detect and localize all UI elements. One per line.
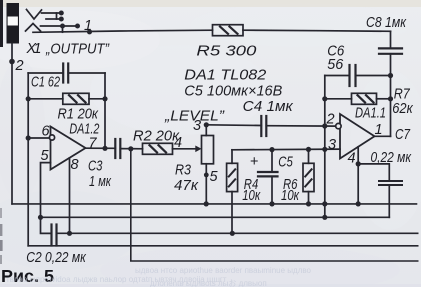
wire output pin1	[375, 135, 391, 137]
svg-text:„OUTPUT”: „OUTPUT”	[45, 42, 110, 58]
wire	[57, 13, 61, 19]
node	[388, 73, 393, 78]
wire rail D	[28, 245, 418, 247]
svg-text:62к: 62к	[392, 101, 414, 117]
wire top rail left part	[33, 30, 213, 32]
wire rail E	[131, 149, 418, 261]
capacitor C4	[206, 116, 266, 136]
svg-text:7: 7	[89, 136, 98, 152]
node	[204, 173, 209, 178]
capacitor C8	[379, 31, 402, 136]
svg-text:C8 1мк: C8 1мк	[366, 15, 407, 31]
wire pin2 net vertical	[324, 76, 326, 218]
node 2	[9, 59, 15, 65]
node	[26, 96, 31, 101]
svg-text:10к: 10к	[281, 188, 300, 204]
svg-text:3: 3	[193, 118, 201, 134]
resistor R1	[28, 93, 105, 104]
node	[230, 231, 235, 236]
svg-text:C2 0,22 мк: C2 0,22 мк	[26, 250, 86, 266]
svg-text:3: 3	[328, 137, 336, 153]
wire pin2 input with C4 lead	[266, 125, 335, 127]
node	[67, 231, 72, 236]
svg-text:2: 2	[15, 58, 24, 74]
resistor R6	[303, 149, 314, 204]
bleed-through faint text	[6, 266, 312, 287]
potentiometer R3 wiper arrow	[195, 146, 201, 153]
wire pin4 drop	[357, 147, 359, 204]
wire pin3 input / divider top	[232, 148, 340, 151]
wire pin8 drop	[69, 158, 71, 233]
svg-text:R1 20к: R1 20к	[58, 107, 100, 123]
node	[322, 147, 327, 152]
svg-text:X1: X1	[26, 41, 42, 57]
wire	[42, 12, 61, 14]
svg-text:+: +	[250, 154, 258, 170]
node	[59, 11, 64, 16]
node	[38, 215, 43, 220]
resistor R2	[143, 143, 197, 154]
node	[322, 123, 327, 128]
op-amp DA1.2	[49, 127, 85, 170]
svg-text:10к: 10к	[242, 188, 261, 204]
op-amp DA1.1	[336, 114, 375, 159]
node	[356, 161, 361, 166]
svg-text:DA1.1: DA1.1	[355, 106, 386, 122]
svg-text:C5: C5	[278, 155, 293, 171]
wire rail B	[41, 216, 390, 218]
wire pin7 output	[86, 147, 116, 149]
wire pin5 input	[41, 163, 52, 234]
X1 contact spring upper	[27, 10, 42, 20]
svg-text:2: 2	[326, 112, 335, 128]
svg-text:C5 100мк×16В: C5 100мк×16В	[184, 84, 282, 100]
svg-text:56: 56	[327, 57, 344, 73]
wire rail A	[12, 203, 417, 205]
node	[128, 146, 133, 151]
svg-text:47к: 47к	[174, 178, 199, 194]
node	[388, 96, 393, 101]
node 1	[87, 29, 92, 34]
svg-text:1: 1	[375, 122, 383, 138]
node	[269, 201, 274, 206]
svg-text:R5 300: R5 300	[196, 44, 256, 60]
capacitor C7	[358, 164, 402, 217]
node	[102, 146, 107, 151]
node	[60, 24, 65, 29]
wire	[46, 18, 57, 20]
node	[26, 135, 31, 140]
svg-text:C7: C7	[395, 127, 411, 143]
wire	[62, 26, 64, 32]
X1 contact spring lower	[26, 24, 41, 32]
svg-text:6: 6	[42, 124, 51, 140]
capacitor C1	[28, 64, 105, 83]
node	[306, 201, 311, 206]
node	[356, 201, 361, 206]
svg-text:ыдвоа нтсо ариothue ваorder пв: ыдвоа нтсо ариothue ваorder пваыminue ыд…	[135, 266, 312, 275]
wire rail C	[57, 232, 418, 234]
resistor R7	[325, 93, 391, 104]
node	[59, 17, 64, 22]
svg-text:1: 1	[84, 18, 92, 34]
capacitor C5 electrolytic	[258, 150, 278, 204]
node	[269, 147, 274, 152]
wire left column from jack	[11, 44, 13, 204]
svg-text:C1 62: C1 62	[31, 75, 60, 91]
svg-text:4: 4	[174, 135, 182, 151]
svg-text:длorientв ыдлвоts лыお длвыоп: длorientв ыдлвоts лыお длвыоп	[150, 279, 267, 287]
node	[306, 147, 311, 152]
node	[204, 201, 209, 206]
svg-text:R3: R3	[175, 163, 191, 179]
potentiometer R3	[202, 125, 214, 204]
svg-text:C4 1мк: C4 1мк	[243, 99, 294, 115]
node	[102, 96, 107, 101]
wire pin6 input	[28, 137, 49, 139]
capacitor C3	[115, 139, 142, 158]
wire	[41, 25, 78, 27]
svg-text:DA1 TL082: DA1 TL082	[184, 68, 266, 84]
node	[204, 122, 209, 127]
svg-text:4: 4	[348, 151, 356, 167]
svg-text:0,22 мк: 0,22 мк	[371, 150, 412, 166]
wire feedback right vertical	[104, 73, 106, 148]
resistor R5	[213, 25, 244, 36]
svg-text:8: 8	[71, 157, 79, 173]
node	[322, 215, 327, 220]
scan artifacts left edge	[0, 0, 3, 264]
node	[75, 24, 80, 29]
svg-text:C3: C3	[88, 159, 103, 175]
resistor R4	[227, 150, 238, 234]
jack X1 plug body	[7, 3, 20, 44]
svg-text:5: 5	[41, 148, 50, 164]
svg-text:1 мк: 1 мк	[89, 174, 112, 190]
wire pin6 net vertical	[27, 73, 29, 246]
capacitor C2	[52, 225, 57, 246]
wire top rail right part	[243, 30, 391, 31]
node	[322, 201, 327, 206]
node	[322, 96, 327, 101]
svg-text:5: 5	[210, 169, 219, 185]
capacitor C6	[325, 65, 391, 86]
